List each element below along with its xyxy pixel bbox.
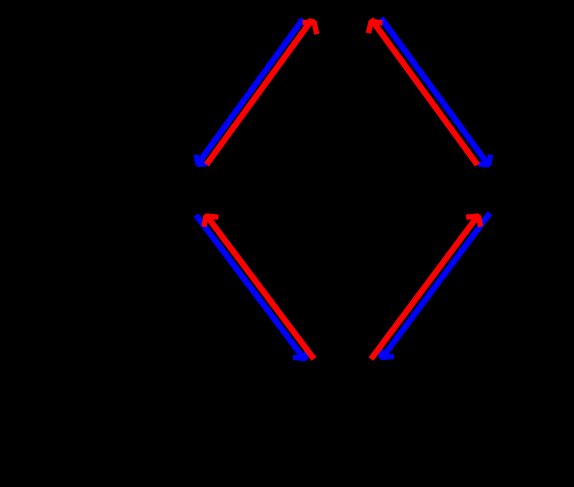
red arrow bottom node to right node [371,215,481,359]
red arrow left node to top node [207,20,317,165]
red arrow right node to top node [369,19,478,165]
red arrow bottom node to left node [204,215,314,359]
blue arrow left node to bottom node [196,215,307,360]
blue arrow top node to right node [381,18,491,165]
blue arrow right node to bottom node [380,213,490,358]
blue arrow top node to left node [196,19,303,165]
